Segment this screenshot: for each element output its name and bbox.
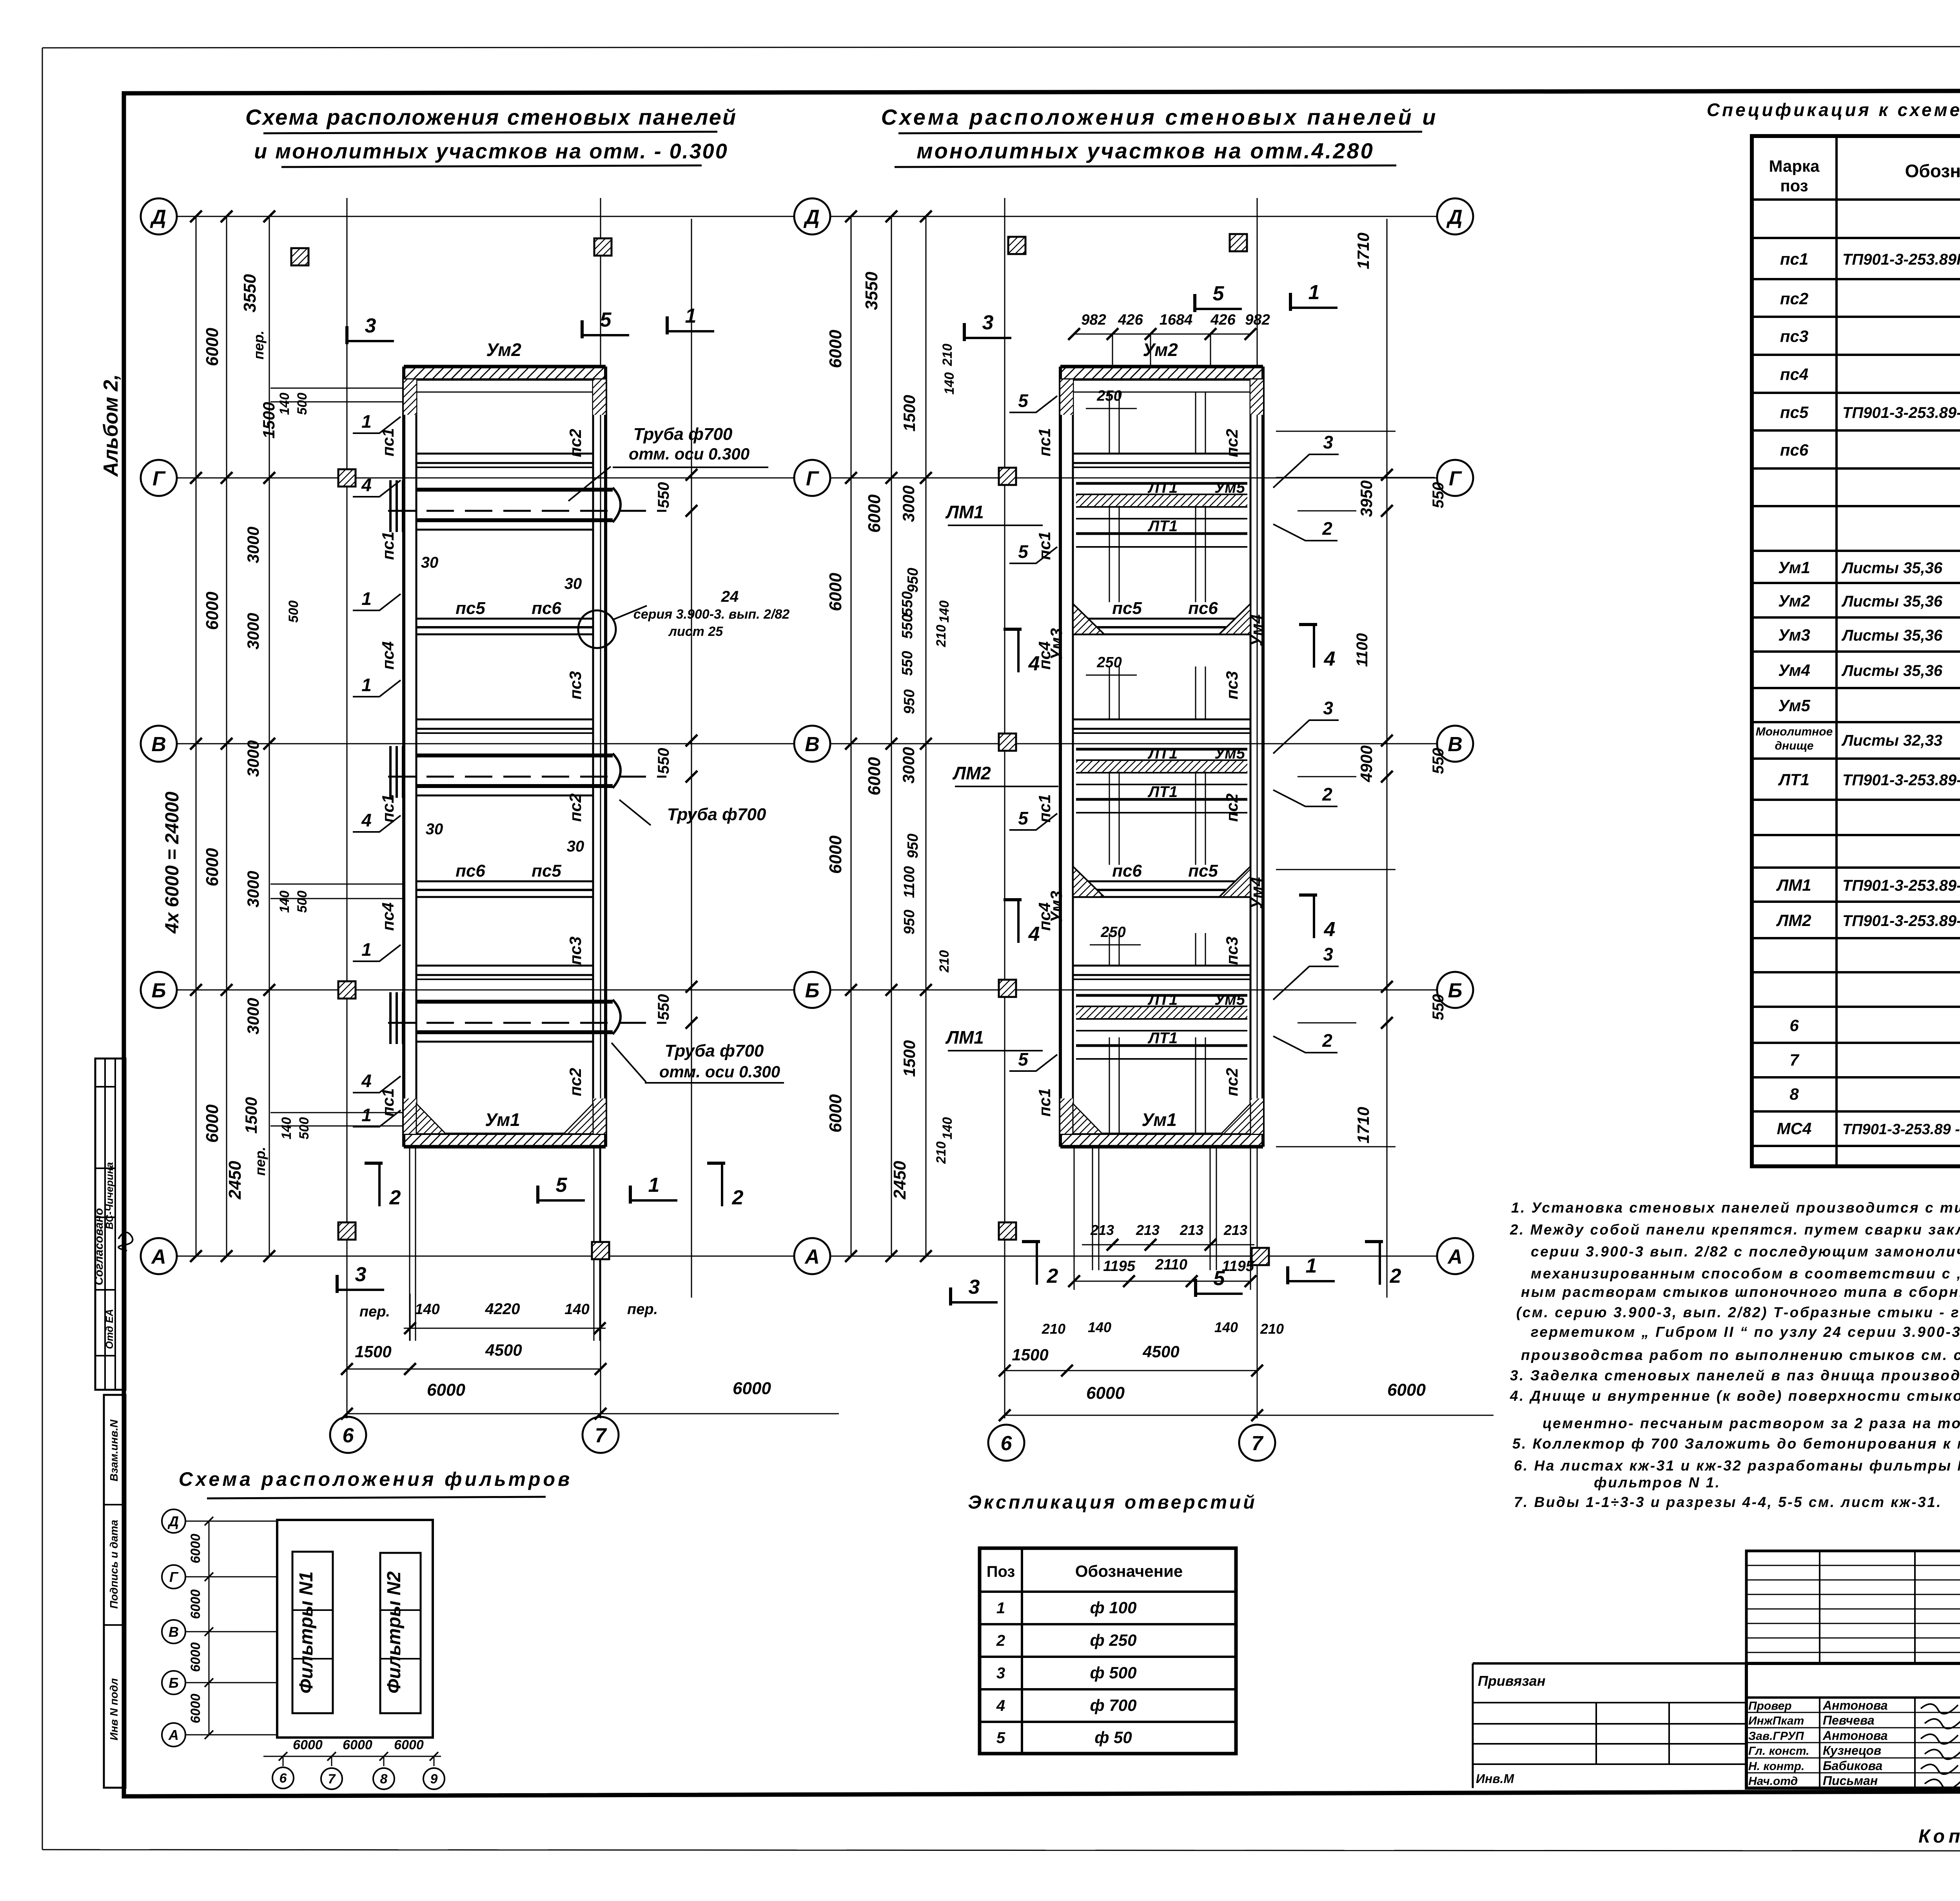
- svg-text:серии 3.900-3 вып. 2/82 с пос: серии 3.900-3 вып. 2/82 с последующим за…: [1531, 1244, 1960, 1260]
- svg-text:3000: 3000: [899, 747, 918, 783]
- svg-text:8: 8: [1789, 1085, 1799, 1103]
- svg-text:4: 4: [1028, 923, 1040, 946]
- main title block: [1746, 1663, 1960, 1788]
- svg-text:2: 2: [1047, 1265, 1058, 1287]
- svg-text:6: 6: [343, 1424, 354, 1447]
- svg-text:пс2: пс2: [566, 1068, 584, 1096]
- svg-text:ТП901-3-253.89-КЖ.И 52.000: ТП901-3-253.89-КЖ.И 52.000: [1842, 404, 1960, 421]
- svg-text:1684: 1684: [1160, 312, 1193, 328]
- svg-text:Д: Д: [167, 1513, 179, 1529]
- svg-text:550: 550: [655, 482, 672, 508]
- svg-text:Нач.отд: Нач.отд: [1748, 1775, 1798, 1788]
- svg-text:А: А: [151, 1246, 166, 1268]
- svg-text:ИнжПкат: ИнжПкат: [1748, 1714, 1804, 1727]
- svg-text:В: В: [1448, 733, 1463, 756]
- filter hall outline: [277, 1520, 433, 1738]
- node marker: [291, 248, 309, 265]
- svg-text:Д: Д: [1446, 206, 1463, 229]
- section mark 1: [1290, 307, 1338, 309]
- partition wall: [1073, 881, 1250, 882]
- svg-text:2: 2: [1322, 518, 1332, 539]
- filter axis circle А: [162, 1723, 185, 1747]
- axis line В: [831, 743, 1436, 744]
- svg-text:Инв N подл: Инв N подл: [108, 1678, 120, 1741]
- svg-text:1: 1: [361, 588, 372, 609]
- svg-text:2: 2: [732, 1186, 744, 1209]
- svg-text:1. Установка стеновых панелей: 1. Установка стеновых панелей производит…: [1511, 1200, 1960, 1216]
- svg-text:пс2: пс2: [566, 793, 584, 822]
- svg-text:3550: 3550: [862, 272, 881, 310]
- svg-text:В: В: [169, 1624, 179, 1640]
- svg-text:отм. оси 0.300: отм. оси 0.300: [629, 445, 750, 463]
- axis circle Б right: [1437, 972, 1473, 1008]
- leader callout 5: [1009, 547, 1057, 563]
- svg-text:Схема расположения фильтров: Схема расположения фильтров: [179, 1468, 573, 1490]
- svg-text:3. Заделка стеновых панелей: 3. Заделка стеновых панелей в паз днища …: [1510, 1367, 1960, 1384]
- svg-text:30: 30: [567, 838, 584, 855]
- svg-text:ф 700: ф 700: [1090, 1696, 1137, 1714]
- svg-text:ВС-Чичерина: ВС-Чичерина: [103, 1162, 115, 1229]
- section mark 2: [721, 1163, 723, 1206]
- svg-text:Труба ф700: Труба ф700: [633, 425, 733, 444]
- svg-text:ф 250: ф 250: [1090, 1631, 1137, 1649]
- svg-text:426: 426: [1118, 312, 1143, 328]
- svg-text:6000: 6000: [203, 328, 222, 366]
- svg-text:пс5: пс5: [1112, 599, 1142, 618]
- svg-text:7: 7: [328, 1772, 336, 1787]
- cell divider / duct at axis В: [416, 719, 593, 721]
- pipe flange left at Б: [389, 992, 392, 1044]
- svg-text:982: 982: [1081, 312, 1106, 328]
- monolithic wedge Um4: [1219, 604, 1250, 634]
- svg-text:6: 6: [279, 1771, 287, 1786]
- leader callout 1: [353, 945, 401, 961]
- svg-text:Ум5: Ум5: [1214, 745, 1245, 762]
- tray top at Б: [1076, 994, 1247, 997]
- svg-text:Ум2: Ум2: [486, 340, 521, 360]
- svg-text:4900: 4900: [1357, 745, 1376, 782]
- svg-text:6000: 6000: [188, 1589, 203, 1619]
- svg-text:6000: 6000: [394, 1738, 424, 1752]
- section mark 2: [378, 1163, 381, 1206]
- svg-text:250: 250: [1096, 654, 1122, 671]
- svg-text:пс2: пс2: [1780, 289, 1808, 308]
- svg-text:6: 6: [1001, 1432, 1013, 1455]
- svg-text:5: 5: [996, 1729, 1005, 1747]
- svg-text:ТП901-3-253.89-КЖ.И.50.010: ТП901-3-253.89-КЖ.И.50.010: [1842, 877, 1960, 894]
- svg-text:Схема расположения стеновых па: Схема расположения стеновых панелей и: [881, 105, 1438, 129]
- svg-text:Д: Д: [803, 206, 820, 229]
- filter axis bubble 8: [373, 1768, 394, 1789]
- svg-text:Бабикова: Бабикова: [1823, 1759, 1882, 1773]
- outer sheet border bottom: [42, 1850, 1960, 1851]
- specification table frame: [1752, 136, 1960, 1166]
- svg-text:ЛТ1: ЛТ1: [1778, 770, 1809, 789]
- cell divider / duct at axis Б: [1073, 965, 1250, 967]
- monolithic wedge Um3: [1073, 604, 1104, 634]
- section mark 4: [1017, 900, 1020, 943]
- svg-text:поз: поз: [1780, 176, 1808, 195]
- svg-text:Ум4: Ум4: [1778, 661, 1810, 679]
- monolithic wedge Um4: [1219, 866, 1250, 897]
- section mark 1: [1288, 1280, 1335, 1282]
- axis line Б: [831, 990, 1436, 991]
- svg-text:3: 3: [969, 1276, 980, 1298]
- svg-text:Ум5: Ум5: [1778, 696, 1810, 715]
- svg-text:3: 3: [982, 311, 994, 334]
- svg-text:Взам.инв.N: Взам.инв.N: [108, 1419, 120, 1481]
- outer sheet border left: [42, 48, 43, 1850]
- svg-text:днище: днище: [1775, 739, 1814, 752]
- svg-text:Инв.М: Инв.М: [1476, 1772, 1515, 1786]
- axis circle В left: [141, 726, 177, 762]
- node detail circle 24: [578, 610, 616, 648]
- svg-text:6000: 6000: [343, 1738, 372, 1752]
- svg-text:4: 4: [361, 475, 372, 495]
- svg-text:6000: 6000: [188, 1694, 203, 1723]
- svg-text:2450: 2450: [225, 1161, 245, 1200]
- svg-text:6000: 6000: [1387, 1380, 1426, 1400]
- node marker: [594, 238, 612, 256]
- pipe flange right at В: [613, 754, 621, 788]
- cell divider / duct at axis Г: [416, 453, 593, 455]
- leader callout 5: [1009, 1055, 1057, 1071]
- svg-text:550: 550: [655, 994, 672, 1020]
- svg-text:пс3: пс3: [566, 671, 584, 699]
- duct verticals in cells plan 2: [1109, 392, 1110, 454]
- section mark 4: [1313, 625, 1315, 668]
- section mark 5: [1195, 308, 1242, 310]
- svg-text:Г: Г: [169, 1569, 179, 1585]
- svg-text:1: 1: [361, 939, 372, 960]
- svg-text:Б: Б: [169, 1675, 179, 1691]
- svg-text:3000: 3000: [244, 527, 262, 563]
- filter axis circle Г: [162, 1565, 185, 1589]
- svg-text:3: 3: [1323, 944, 1333, 964]
- leader callout 5: [1009, 396, 1057, 412]
- svg-text:2. Между собой панели крепятся: 2. Между собой панели крепятся. путем св…: [1510, 1222, 1960, 1238]
- svg-text:1: 1: [996, 1600, 1005, 1617]
- outer sheet border top: [42, 46, 1960, 48]
- svg-text:серия 3.900-3. вып. 2/82: серия 3.900-3. вып. 2/82: [633, 607, 790, 622]
- section mark 2: [1036, 1242, 1038, 1285]
- callout 3/2 right: [1273, 454, 1339, 488]
- leader callout 4: [353, 815, 401, 832]
- svg-text:1500: 1500: [260, 402, 278, 438]
- svg-text:550: 550: [655, 748, 672, 774]
- svg-text:Н. контр.: Н. контр.: [1748, 1760, 1804, 1773]
- svg-text:пс6: пс6: [1780, 441, 1809, 459]
- axis line Б: [178, 990, 793, 991]
- svg-text:отм. оси 0.300: отм. оси 0.300: [659, 1062, 780, 1081]
- svg-text:ЛТ1: ЛТ1: [1147, 783, 1178, 801]
- svg-text:4: 4: [1324, 918, 1336, 941]
- axis bubble 7: [583, 1417, 619, 1453]
- svg-text:1100: 1100: [901, 866, 918, 898]
- svg-text:1: 1: [685, 305, 697, 327]
- svg-text:5: 5: [556, 1174, 568, 1197]
- svg-text:В: В: [805, 733, 820, 756]
- leader callout 1: [353, 594, 401, 610]
- section mark 5: [538, 1199, 585, 1202]
- extension lines below tank: [1092, 1147, 1093, 1270]
- svg-text:5: 5: [600, 309, 612, 331]
- svg-text:982: 982: [1245, 312, 1270, 328]
- svg-text:140: 140: [1088, 1319, 1111, 1335]
- svg-text:140: 140: [937, 601, 952, 623]
- pipe flange right at Г: [613, 488, 621, 522]
- svg-text:4: 4: [1324, 648, 1336, 670]
- svg-text:4: 4: [996, 1697, 1005, 1714]
- filter dim line: [209, 1521, 210, 1735]
- svg-text:3550: 3550: [240, 274, 260, 312]
- pipe flange left at В: [389, 746, 392, 798]
- svg-text:2: 2: [996, 1632, 1005, 1649]
- svg-text:140: 140: [279, 1117, 294, 1140]
- pipe top at Г: [416, 488, 613, 492]
- svg-text:5: 5: [1213, 282, 1225, 305]
- filter block N2: [380, 1553, 421, 1713]
- axis circle В right: [1437, 726, 1473, 762]
- svg-text:пс6: пс6: [532, 599, 561, 618]
- axis line А: [831, 1256, 1436, 1257]
- svg-text:Ум1: Ум1: [485, 1109, 520, 1130]
- svg-text:ТП901-3-253.89-КЖ.И.53.000: ТП901-3-253.89-КЖ.И.53.000: [1842, 772, 1960, 789]
- axis circle Д left: [141, 198, 177, 234]
- overall dim line: [196, 216, 197, 1256]
- svg-text:9: 9: [430, 1772, 438, 1787]
- svg-text:Б: Б: [152, 979, 166, 1002]
- svg-text:1500: 1500: [900, 1040, 918, 1077]
- signature squiggle: [118, 1232, 132, 1251]
- svg-text:пс2: пс2: [566, 429, 584, 457]
- right dimension line: [1387, 219, 1388, 1298]
- svg-text:2: 2: [389, 1186, 401, 1209]
- svg-text:550: 550: [899, 591, 916, 616]
- node marker: [999, 1222, 1016, 1240]
- section mark 3: [951, 1301, 998, 1304]
- svg-text:950: 950: [905, 568, 921, 592]
- svg-text:Провер: Провер: [1748, 1699, 1792, 1712]
- svg-text:6000: 6000: [865, 757, 884, 795]
- axis circle Г right: [794, 460, 830, 496]
- svg-text:Ум4: Ум4: [1247, 877, 1266, 909]
- svg-text:пс1: пс1: [379, 794, 397, 822]
- svg-text:пер.: пер.: [627, 1301, 658, 1318]
- svg-text:Фильтры N1: Фильтры N1: [296, 1571, 317, 1694]
- svg-text:4: 4: [361, 1071, 372, 1091]
- leader callout 4: [353, 1076, 401, 1093]
- axis line А: [178, 1256, 793, 1257]
- axis circle Б right: [794, 972, 830, 1008]
- axis circle Г right: [1437, 460, 1473, 496]
- svg-text:пс1: пс1: [1035, 428, 1054, 456]
- svg-text:3000: 3000: [244, 871, 262, 907]
- approval stamp block: [95, 1059, 125, 1390]
- svg-text:Антонова: Антонова: [1822, 1698, 1888, 1712]
- svg-text:6. На листах кж-31 и кж-3: 6. На листах кж-31 и кж-32 разработаны ф…: [1514, 1458, 1960, 1474]
- svg-text:Ум1: Ум1: [1778, 558, 1810, 577]
- svg-text:Листы 35,36: Листы 35,36: [1841, 627, 1943, 644]
- filter block N1: [292, 1552, 333, 1713]
- revision table: [1746, 1551, 1960, 1663]
- svg-text:6000: 6000: [188, 1642, 203, 1672]
- extension lines below tank: [409, 1147, 410, 1341]
- svg-text:ЛМ2: ЛМ2: [1776, 911, 1811, 930]
- svg-text:8: 8: [380, 1772, 388, 1787]
- svg-text:Листы 32,33: Листы 32,33: [1841, 732, 1942, 749]
- svg-text:А: А: [804, 1246, 820, 1268]
- axis line В: [178, 743, 793, 744]
- svg-text:3950: 3950: [1357, 480, 1376, 517]
- svg-text:140: 140: [942, 372, 957, 395]
- svg-text:Марка: Марка: [1769, 157, 1820, 175]
- svg-text:пс2: пс2: [1223, 793, 1241, 822]
- svg-text:6: 6: [1789, 1016, 1799, 1035]
- svg-text:550: 550: [1430, 994, 1447, 1020]
- svg-text:2110: 2110: [1155, 1256, 1187, 1273]
- svg-text:250: 250: [1096, 388, 1122, 404]
- pipe top at Б: [416, 1000, 613, 1004]
- svg-text:пс1: пс1: [1780, 250, 1808, 268]
- svg-text:Копировал Подлевская: Копировал Подлевская: [1918, 1826, 1960, 1847]
- svg-text:Ум3: Ум3: [1778, 626, 1810, 644]
- svg-text:пс5: пс5: [456, 599, 485, 618]
- svg-text:ф 500: ф 500: [1090, 1663, 1137, 1682]
- svg-text:герметиком „ Гибром II “ по: герметиком „ Гибром II “ по узлу 24 сери…: [1531, 1324, 1960, 1340]
- svg-text:1710: 1710: [1354, 1107, 1372, 1143]
- inventory stamp block: [104, 1395, 125, 1788]
- pipe flange right at Б: [613, 1000, 621, 1034]
- svg-text:пс3: пс3: [566, 937, 584, 965]
- svg-text:550: 550: [899, 651, 916, 675]
- left strip of title block: [1473, 1662, 1746, 1665]
- filter bottom dims: [263, 1756, 441, 1757]
- svg-text:пс6: пс6: [1188, 599, 1218, 618]
- svg-text:550: 550: [1430, 748, 1447, 774]
- svg-text:лист 25: лист 25: [668, 624, 723, 639]
- node marker: [338, 469, 356, 487]
- svg-text:5. Коллектор ф 700 Заложить: 5. Коллектор ф 700 Заложить до бетониров…: [1512, 1436, 1960, 1452]
- svg-text:4х 6000 = 24000: 4х 6000 = 24000: [162, 792, 183, 934]
- section mark 3: [337, 1289, 384, 1291]
- leader callout 1: [353, 1110, 401, 1127]
- svg-text:210: 210: [1260, 1321, 1284, 1337]
- svg-text:1: 1: [361, 1105, 372, 1125]
- svg-text:1195: 1195: [1103, 1258, 1136, 1275]
- axis line Д: [831, 216, 1436, 217]
- axis circle А right: [794, 1238, 830, 1274]
- svg-text:4220: 4220: [485, 1300, 520, 1318]
- svg-text:пс3: пс3: [1223, 671, 1241, 699]
- callout 3/2 right: [1273, 966, 1339, 1000]
- svg-text:6000: 6000: [865, 494, 884, 533]
- svg-text:Экспликация отверстий: Экспликация отверстий: [968, 1492, 1257, 1513]
- svg-text:Отд ЕА: Отд ЕА: [103, 1309, 115, 1349]
- svg-text:6000: 6000: [188, 1534, 203, 1563]
- svg-text:Антонова: Антонова: [1822, 1729, 1888, 1743]
- svg-text:цементно- песчаным раствором: цементно- песчаным раствором за 2 раза н…: [1543, 1415, 1960, 1431]
- svg-text:Спецификация к схеме расположе: Спецификация к схеме расположения стенов…: [1707, 100, 1960, 120]
- node marker: [592, 1242, 609, 1259]
- svg-text:6000: 6000: [427, 1380, 465, 1400]
- svg-text:6000: 6000: [733, 1379, 771, 1398]
- svg-text:6000: 6000: [826, 330, 845, 368]
- svg-text:7: 7: [595, 1424, 607, 1447]
- section mark 2: [1379, 1242, 1381, 1285]
- svg-text:210: 210: [934, 1142, 949, 1164]
- svg-text:1195: 1195: [1222, 1258, 1254, 1275]
- svg-text:3: 3: [996, 1665, 1005, 1682]
- partition wall: [416, 881, 593, 882]
- svg-text:Труба ф700: Труба ф700: [665, 1041, 764, 1060]
- svg-text:Зав.ГРУП: Зав.ГРУП: [1748, 1730, 1804, 1743]
- svg-text:3000: 3000: [244, 613, 262, 649]
- svg-text:Подпись и дата: Подпись и дата: [108, 1520, 120, 1609]
- svg-text:4: 4: [1028, 652, 1040, 675]
- svg-text:30: 30: [564, 575, 582, 592]
- svg-text:210: 210: [934, 625, 949, 648]
- leader callout 5: [1009, 813, 1057, 830]
- svg-text:3: 3: [1323, 432, 1333, 452]
- section mark 4: [1313, 895, 1315, 938]
- svg-text:550: 550: [1430, 482, 1447, 508]
- svg-text:6000: 6000: [826, 835, 845, 874]
- svg-text:Ум1: Ум1: [1142, 1109, 1177, 1130]
- svg-text:монолитных участков на отм.4.2: монолитных участков на отм.4.280: [916, 138, 1374, 163]
- svg-text:ф 100: ф 100: [1090, 1598, 1137, 1617]
- corner fillets: [416, 1104, 446, 1134]
- svg-text:Ум5: Ум5: [1214, 479, 1245, 496]
- callout 3/2 right: [1273, 720, 1339, 754]
- svg-text:ТП901-3-253.89 - КЖ. И50.040: ТП901-3-253.89 - КЖ. И50.040: [1842, 1121, 1960, 1138]
- filter axis bubble 6: [272, 1767, 294, 1788]
- svg-text:3: 3: [355, 1263, 367, 1286]
- leader callout 1: [353, 417, 401, 433]
- svg-text:5: 5: [1018, 808, 1029, 828]
- filter axis circle Б: [162, 1671, 185, 1694]
- svg-text:30: 30: [421, 554, 439, 571]
- svg-text:Письман: Письман: [1823, 1774, 1878, 1788]
- svg-text:Листы 35,36: Листы 35,36: [1841, 593, 1943, 610]
- svg-text:ЛТ1: ЛТ1: [1147, 991, 1178, 1008]
- svg-text:24: 24: [721, 588, 739, 605]
- svg-text:Ум2: Ум2: [1143, 340, 1178, 360]
- svg-text:ф 50: ф 50: [1094, 1728, 1132, 1747]
- svg-text:механизированным способом в со: механизированным способом в соответствии…: [1531, 1266, 1960, 1282]
- axis circle Д right: [1437, 198, 1473, 234]
- svg-text:1100: 1100: [1354, 633, 1371, 667]
- svg-text:В: В: [151, 733, 166, 756]
- svg-text:Гл. конст.: Гл. конст.: [1748, 1745, 1809, 1758]
- svg-text:7: 7: [1789, 1051, 1799, 1069]
- svg-text:6000: 6000: [826, 573, 845, 611]
- svg-text:Фильтры N2: Фильтры N2: [384, 1571, 405, 1694]
- svg-text:Обозначение: Обозначение: [1075, 1562, 1183, 1580]
- section mark 1: [630, 1199, 677, 1202]
- column axis 6 line: [347, 198, 348, 1418]
- svg-text:ТП901-3-253.89КЖ.И 51.000: ТП901-3-253.89КЖ.И 51.000: [1842, 251, 1960, 268]
- svg-text:6000: 6000: [1086, 1384, 1125, 1403]
- svg-text:пс5: пс5: [532, 861, 561, 881]
- svg-text:1: 1: [361, 675, 372, 695]
- node marker: [338, 1222, 356, 1240]
- svg-text:Обозначение: Обозначение: [1905, 161, 1960, 181]
- node marker: [999, 734, 1016, 751]
- svg-text:пс3: пс3: [1780, 327, 1808, 345]
- svg-text:МС4: МС4: [1777, 1119, 1812, 1138]
- tray top at Г: [1076, 482, 1247, 485]
